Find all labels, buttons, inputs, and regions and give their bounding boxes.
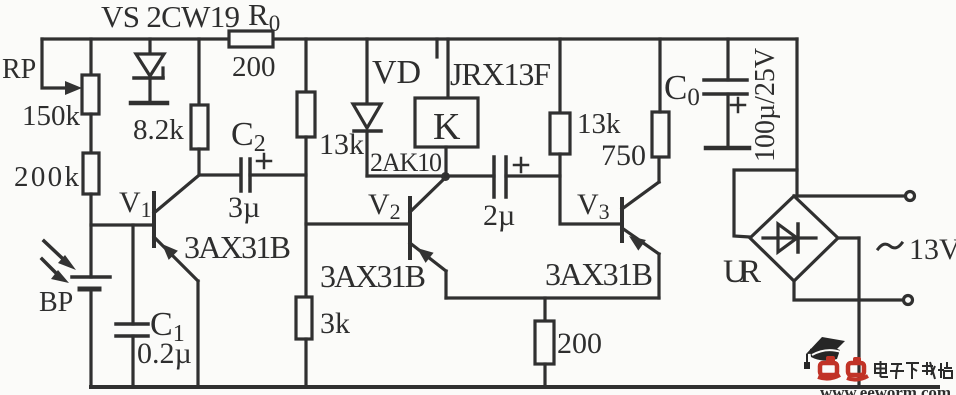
wire emitter bus (446, 296, 659, 299)
wire rail to 13k first (304, 39, 307, 92)
capacitor C1 (116, 324, 148, 336)
wire stub (435, 39, 438, 57)
resistor 13k first (297, 92, 315, 137)
wire C1 tap (131, 225, 134, 324)
resistor R0 (229, 31, 273, 47)
svg-text:3AX31B: 3AX31B (184, 229, 291, 265)
wire bridge right corner (838, 236, 859, 239)
svg-text:0.2µ: 0.2µ (137, 337, 192, 370)
wire rail to relay (446, 39, 449, 98)
capacitor 2u (494, 157, 506, 197)
svg-text:www.eeworm.com: www.eeworm.com (820, 383, 951, 395)
wire rail to 150k (89, 39, 92, 75)
wire 200 stub (543, 298, 546, 321)
svg-text:200k: 200k (14, 161, 80, 193)
wire C2 right (250, 173, 306, 176)
wire 200k to BP (89, 194, 92, 277)
label 13V AC (878, 243, 902, 249)
wire V2 emitter down (444, 271, 447, 298)
wire bridge right down (857, 238, 860, 387)
svg-text:JRX13F: JRX13F (450, 56, 551, 92)
svg-text:K: K (433, 106, 461, 148)
svg-text:200: 200 (232, 51, 276, 83)
wire 13k to V3 base (560, 154, 620, 224)
resistor 3k (296, 297, 312, 339)
wire BP to ground rail (89, 289, 92, 387)
svg-text:13V: 13V (909, 233, 956, 266)
wire VD node (367, 174, 445, 177)
resistor 750 (652, 112, 669, 157)
wire 13k to 3k (304, 137, 307, 297)
wire C1 to ground (131, 336, 134, 387)
wire rail to VD (365, 39, 368, 103)
wire node to 2u (446, 174, 494, 177)
svg-text:750: 750 (601, 139, 646, 172)
svg-text:2AK10: 2AK10 (370, 148, 442, 177)
resistor 8.2k (191, 105, 208, 149)
wire top supply rail (42, 37, 797, 40)
svg-text:13k: 13k (577, 108, 621, 140)
wire V1 emitter down (196, 281, 199, 387)
wire 3k to ground (304, 339, 307, 387)
relay K box (415, 98, 478, 147)
potentiometer RP 150k body (82, 75, 99, 114)
wire 2u to 13k column (506, 174, 560, 177)
svg-text:VS 2CW19: VS 2CW19 (101, 0, 240, 34)
wire rail to C0 (726, 39, 729, 80)
svg-text:2µ: 2µ (483, 199, 515, 232)
svg-text:VD: VD (372, 54, 421, 91)
wire rail to 8.2k (197, 39, 200, 105)
wire RP wiper drop (42, 39, 66, 88)
plus sign C2 (257, 154, 271, 168)
wire 8.2k to C2 node (199, 149, 240, 175)
plus sign 2u (514, 158, 528, 172)
svg-text:BP: BP (39, 287, 73, 318)
wire bridge top to terminal (794, 194, 904, 197)
wire V2 base (306, 222, 408, 225)
wire bottom ground rail (91, 385, 938, 389)
wire relay to node (444, 147, 447, 176)
terminal upper (906, 192, 915, 201)
light arrow 1 (44, 241, 76, 270)
photocell BP short plate (80, 287, 99, 292)
transistor V2 (410, 178, 446, 271)
svg-text:UR: UR (723, 254, 761, 290)
wire 150k to 200k (89, 114, 92, 153)
wire jog to bridge left (734, 170, 797, 237)
light arrow 2 (42, 259, 69, 283)
bridge diode (763, 224, 816, 252)
capacitor C2 (241, 159, 250, 191)
svg-text:200: 200 (557, 327, 602, 360)
wire V1 base (91, 223, 152, 226)
svg-text:8.2k: 8.2k (133, 114, 184, 146)
svg-text:3AX31B: 3AX31B (320, 258, 426, 294)
svg-text:3µ: 3µ (228, 191, 260, 224)
bridge rectifier UR (750, 196, 838, 281)
svg-text:13k: 13k (319, 128, 364, 161)
wire 200 to ground (543, 364, 546, 387)
diode VD (353, 104, 381, 176)
terminal lower (904, 296, 913, 305)
junction dot (441, 172, 450, 181)
transistor V3 (622, 182, 659, 254)
resistor 200k (83, 153, 99, 194)
svg-text:100µ/25V: 100µ/25V (750, 48, 781, 162)
wire V3 emitter down (657, 254, 660, 298)
resistor 200 bottom (535, 321, 554, 364)
watermark graduation cap (804, 337, 845, 369)
capacitor C0 (704, 80, 749, 148)
wire bridge bottom (794, 281, 902, 300)
svg-text:150k: 150k (22, 100, 81, 132)
watermark site name glyphs (875, 361, 952, 379)
plus sign C0 (731, 98, 745, 112)
potentiometer wiper arrow (65, 81, 82, 95)
wire V3 collector to 750 (657, 157, 660, 182)
wire rail to 13k second (558, 39, 561, 113)
transistor V1 (154, 176, 198, 281)
wire rail end down (795, 39, 798, 196)
photocell BP long plate (72, 275, 110, 279)
watermark bug char 2 (847, 357, 868, 380)
svg-text:3AX31B: 3AX31B (545, 256, 653, 292)
svg-text:RP: RP (2, 54, 36, 85)
svg-text:3k: 3k (320, 307, 350, 340)
resistor 13k second (550, 113, 570, 154)
wire rail to 750 (658, 39, 661, 112)
watermark bug char 1 (818, 356, 840, 379)
zener diode VS (131, 39, 167, 103)
